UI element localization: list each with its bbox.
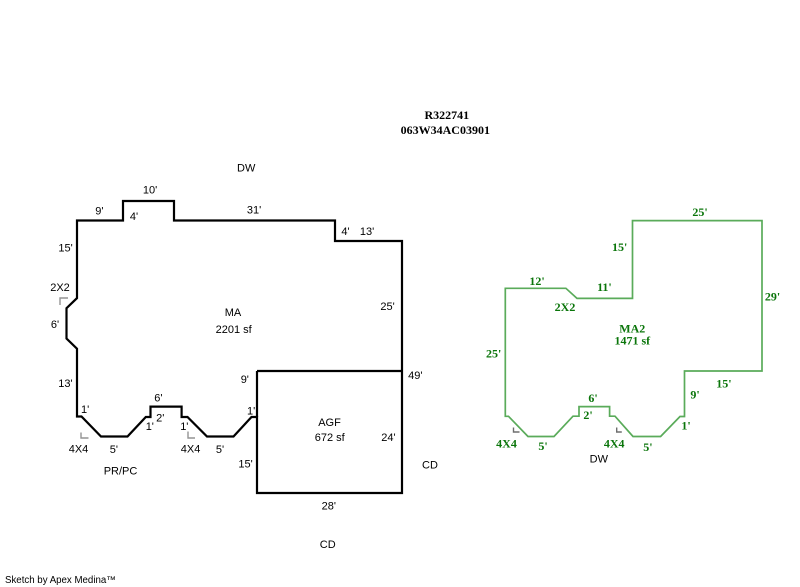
gray bracket 4X4 right [188,432,195,439]
gray bracket 4X4 green right [617,428,622,433]
svg-text:PR/PC: PR/PC [104,466,138,478]
MA building outline (black perimeter with bay zigzag) [67,201,403,493]
svg-text:15': 15' [238,459,252,471]
svg-text:11': 11' [597,280,612,294]
svg-text:15': 15' [612,240,627,254]
svg-text:2201 sf: 2201 sf [216,324,253,336]
svg-text:10': 10' [143,185,157,197]
svg-text:25': 25' [486,347,501,361]
svg-text:MA: MA [225,307,242,319]
svg-text:Sketch by Apex Medina™: Sketch by Apex Medina™ [5,575,116,586]
svg-text:DW: DW [237,163,256,175]
gray bracket 4X4 left [81,433,89,439]
svg-text:4X4: 4X4 [604,437,625,451]
svg-text:5': 5' [643,440,652,454]
svg-text:49': 49' [408,370,422,382]
svg-text:12': 12' [529,274,544,288]
svg-text:6': 6' [51,319,59,331]
svg-text:25': 25' [380,301,394,313]
AGF left interior wall [256,371,258,417]
svg-text:5': 5' [538,439,547,453]
svg-text:9': 9' [690,388,699,402]
svg-text:4X4: 4X4 [496,437,517,451]
svg-text:4X4: 4X4 [181,444,201,456]
svg-text:R322741: R322741 [424,108,469,122]
svg-text:2X2: 2X2 [50,282,70,294]
svg-text:1': 1' [81,404,89,416]
svg-text:CD: CD [422,459,438,471]
svg-text:6': 6' [154,392,162,404]
svg-text:15': 15' [58,243,72,255]
svg-text:1': 1' [180,421,188,433]
svg-text:2': 2' [583,408,592,422]
svg-text:13': 13' [58,378,72,390]
svg-text:6': 6' [588,391,597,405]
svg-text:AGF: AGF [318,417,341,429]
svg-text:13': 13' [360,226,374,238]
svg-text:4': 4' [130,211,138,223]
svg-text:1': 1' [146,421,154,433]
svg-text:CD: CD [320,539,336,551]
svg-text:31': 31' [247,205,261,217]
svg-text:2X2: 2X2 [555,300,576,314]
gray bracket 4X4 green left [514,428,520,433]
svg-text:24': 24' [381,432,395,444]
svg-text:28': 28' [322,501,336,513]
svg-text:9': 9' [241,374,249,386]
svg-text:5': 5' [216,444,224,456]
svg-text:1': 1' [681,419,690,433]
svg-text:5': 5' [110,444,118,456]
AGF top interior wall [257,370,402,372]
svg-text:1471 sf: 1471 sf [614,333,651,347]
svg-text:4': 4' [341,226,349,238]
svg-text:063W34AC03901: 063W34AC03901 [401,123,490,137]
svg-text:1': 1' [247,406,255,418]
svg-text:25': 25' [692,205,707,219]
svg-text:15': 15' [716,376,731,390]
svg-text:9': 9' [95,206,103,218]
svg-text:29': 29' [765,289,780,303]
svg-text:672 sf: 672 sf [315,432,346,444]
gray bracket 2X2 notch [60,298,68,305]
svg-text:4X4: 4X4 [69,444,89,456]
svg-text:2': 2' [156,413,164,425]
MA2 building outline (green perimeter) [505,221,762,437]
svg-text:DW: DW [590,454,609,466]
